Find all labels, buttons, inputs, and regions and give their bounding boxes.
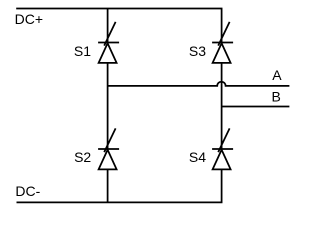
svg-text:S3: S3: [189, 43, 206, 59]
svg-text:DC-: DC-: [15, 183, 40, 199]
svg-text:A: A: [272, 67, 282, 83]
svg-text:DC+: DC+: [15, 11, 43, 27]
svg-text:S4: S4: [189, 149, 206, 165]
svg-text:B: B: [272, 88, 281, 104]
svg-text:S2: S2: [74, 149, 91, 165]
svg-text:S1: S1: [74, 43, 91, 59]
